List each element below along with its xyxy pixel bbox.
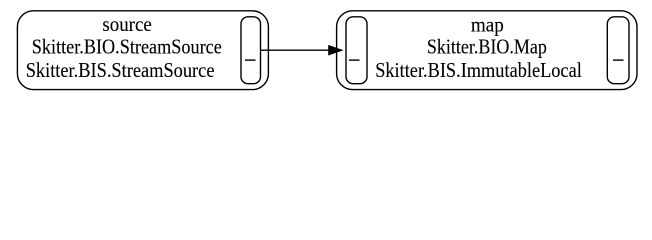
svg-text:Skitter.BIS.ImmutableLocal: Skitter.BIS.ImmutableLocal bbox=[375, 58, 582, 82]
svg-text:Skitter.BIS.StreamSource: Skitter.BIS.StreamSource bbox=[26, 58, 215, 82]
svg-text:source: source bbox=[102, 12, 151, 36]
svg-text:map: map bbox=[471, 13, 504, 37]
svg-text:Skitter.BIO.Map: Skitter.BIO.Map bbox=[427, 35, 547, 59]
svg-text:Skitter.BIO.StreamSource: Skitter.BIO.StreamSource bbox=[32, 35, 222, 59]
